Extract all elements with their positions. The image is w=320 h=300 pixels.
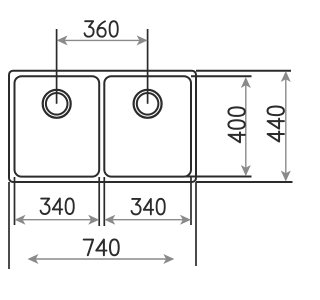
right bowl	[104, 76, 191, 176]
label 340 right	[132, 199, 165, 215]
dim line 440	[285, 73, 287, 181]
label 740	[84, 239, 119, 255]
left drain outer	[43, 90, 71, 118]
ext line right drain	[147, 29, 149, 104]
ext line sink bottom right	[196, 181, 293, 183]
label 400 (rotated)	[228, 107, 244, 142]
dim line 360	[58, 39, 146, 41]
ext line left drain	[56, 29, 58, 104]
dim line 400	[245, 79, 247, 176]
ext line bowl top right	[191, 75, 252, 77]
label 360	[85, 21, 118, 37]
label 340 left	[41, 198, 74, 214]
right drain outer	[134, 90, 162, 118]
ext line bowl bottom right	[186, 176, 252, 178]
ext line left bowl right down	[98, 177, 100, 226]
ext line bowl left down	[14, 177, 16, 225]
right drain inner	[137, 93, 159, 115]
left drain inner	[46, 93, 68, 115]
label 440 (rotated)	[268, 107, 284, 142]
ext line sink left down	[8, 182, 10, 269]
dim line 340 right	[106, 219, 190, 221]
sink outer rim	[9, 71, 196, 182]
dim line 740	[29, 258, 173, 260]
left bowl	[15, 76, 100, 176]
ext line sink right down	[195, 182, 197, 266]
ext line sink top right	[196, 70, 291, 72]
ext line right bowl left down	[103, 177, 105, 226]
ext line right bowl right down	[190, 177, 192, 225]
dim line 340 left	[16, 219, 98, 221]
